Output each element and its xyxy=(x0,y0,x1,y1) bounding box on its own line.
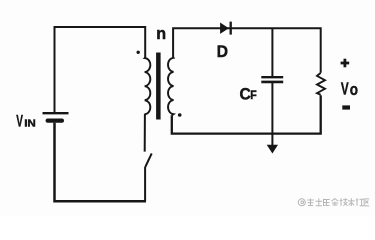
svg-text:V: V xyxy=(16,110,23,129)
label - (output minus) xyxy=(342,105,350,109)
wire secondary bottom lead and output bottom rail xyxy=(172,95,321,133)
svg-text:F: F xyxy=(250,90,257,103)
svg-text:o: o xyxy=(350,81,358,100)
wire top-left horizontal (VIN+ to transformer primary) xyxy=(55,27,146,113)
svg-text:n: n xyxy=(156,24,166,43)
load resistor RL zigzag xyxy=(317,73,325,95)
svg-text:IN: IN xyxy=(24,118,36,129)
transformer T1 core xyxy=(156,53,161,120)
svg-text:D: D xyxy=(217,43,229,62)
char qu xyxy=(364,199,369,206)
label VO xyxy=(341,81,358,100)
label CF xyxy=(240,85,257,104)
watermark @juejin community xyxy=(298,198,369,206)
char xi xyxy=(307,199,313,206)
wire left vertical below battery xyxy=(55,123,147,201)
svg-text:C: C xyxy=(240,85,251,104)
char shu xyxy=(348,198,355,206)
char tu xyxy=(316,198,323,205)
wire capacitor top lead xyxy=(271,28,273,76)
wire capacitor bottom lead / ground stem xyxy=(271,83,273,146)
char jin xyxy=(331,199,338,206)
transformer primary polarity dot xyxy=(137,51,140,54)
wire secondary top lead and output top rail xyxy=(173,28,321,73)
transformer secondary polarity dot xyxy=(178,113,182,117)
transformer T1 primary winding xyxy=(145,58,151,115)
char ji xyxy=(340,198,348,206)
wire switch bottom lead xyxy=(144,167,146,201)
ground symbol (down arrow) xyxy=(267,145,278,154)
diode D cathode bar xyxy=(230,22,232,35)
capacitor CF top plate xyxy=(261,76,283,78)
transformer T1 secondary winding xyxy=(168,57,173,115)
diode D triangle xyxy=(220,23,229,34)
battery VIN xyxy=(43,113,69,120)
wire primary bottom lead to switch contact xyxy=(144,114,146,152)
char jue xyxy=(324,199,330,206)
switch S1 blade xyxy=(145,153,151,167)
char she xyxy=(356,199,364,206)
label + (output plus) xyxy=(341,59,350,68)
label VIN xyxy=(16,110,36,129)
svg-text:V: V xyxy=(341,81,349,100)
capacitor CF bottom plate xyxy=(261,81,283,84)
